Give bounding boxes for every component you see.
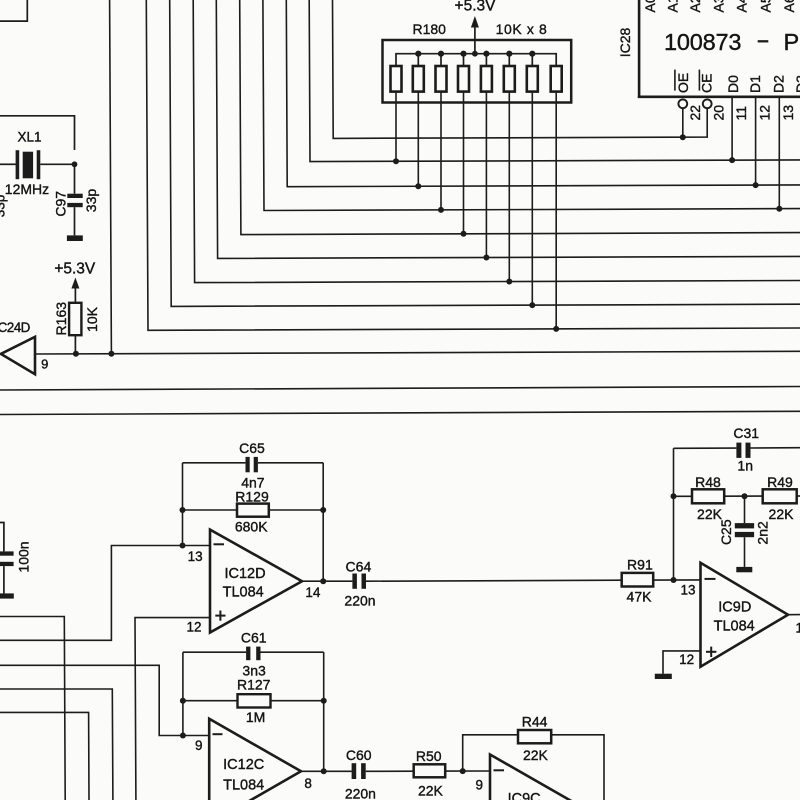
svg-text:100873: 100873 xyxy=(664,29,741,55)
wire rail riser xyxy=(417,54,419,66)
plus sign IC9D xyxy=(706,651,716,653)
node D1 on bus xyxy=(753,182,759,188)
resistor R180 element 1 xyxy=(391,66,402,92)
svg-text:R127: R127 xyxy=(237,676,271,692)
resistor R49 xyxy=(763,489,797,503)
capacitor 100n top plate xyxy=(0,551,14,555)
plus sign IC12D xyxy=(215,615,225,617)
wire left-edge net W5 xyxy=(0,712,89,800)
svg-text:C31: C31 xyxy=(733,425,759,441)
resistor R180 element 5 xyxy=(481,66,492,92)
svg-text:13: 13 xyxy=(780,105,796,121)
wire C97 to rail stub xyxy=(74,207,76,235)
resistor R163 xyxy=(69,303,81,335)
minus sign IC9C xyxy=(494,769,505,771)
wire feedback right vertical IC12C xyxy=(323,652,325,771)
svg-text:IC9D: IC9D xyxy=(718,600,751,616)
wire left-edge net W1 xyxy=(0,617,65,800)
svg-text:11: 11 xyxy=(733,106,749,121)
op-amp IC9C triangle (cut at bottom) xyxy=(490,755,582,800)
node R127 right xyxy=(321,698,327,704)
capacitor C97 top plate xyxy=(67,194,82,198)
node IC12D output xyxy=(320,578,326,584)
wire bus line L8 with left corner xyxy=(170,0,800,306)
wire IC12C output to C60 xyxy=(301,770,352,772)
wire R48 left lead xyxy=(674,495,693,497)
svg-text:TL084: TL084 xyxy=(223,585,264,601)
gate IC24D triangle xyxy=(1,337,35,374)
capacitor C60 left plate xyxy=(352,763,357,779)
wire R48 to R49 xyxy=(724,495,763,497)
svg-text:13: 13 xyxy=(680,582,695,597)
crystal XL1 body xyxy=(23,152,33,179)
wire R180 top rail xyxy=(396,54,556,66)
capacitor C65 left plate xyxy=(246,457,250,472)
svg-text:22K: 22K xyxy=(769,506,795,522)
resistor R50 xyxy=(414,764,446,777)
wire bus line L2 with left corner xyxy=(309,0,800,162)
svg-text:R48: R48 xyxy=(695,474,721,490)
wire R180 element 3 to bus line L4 xyxy=(440,92,442,210)
svg-text:OE: OE xyxy=(675,73,691,93)
supply arrow +5.3V (top) xyxy=(471,16,479,28)
svg-text:A1: A1 xyxy=(665,0,681,13)
capacitor C64 right plate xyxy=(362,574,367,589)
svg-text:C64: C64 xyxy=(346,558,372,574)
svg-text:+5.3V: +5.3V xyxy=(455,0,497,15)
wire bus vertical x=111 xyxy=(110,0,112,354)
capacitor C64 left plate xyxy=(352,574,357,589)
resistor R180 element 7 xyxy=(527,66,538,92)
node R129 left xyxy=(180,507,186,513)
resistor R180 element 3 xyxy=(436,66,447,92)
node R180 element 7 on bus xyxy=(529,302,535,308)
node IC12C inverting input xyxy=(180,733,186,739)
svg-text:D1: D1 xyxy=(747,75,763,93)
node rail junction xyxy=(438,51,444,57)
svg-text:220n: 220n xyxy=(344,593,375,609)
wire IC12D pin 12 input net xyxy=(135,618,210,800)
svg-text:R44: R44 xyxy=(522,714,548,730)
svg-text:R49: R49 xyxy=(767,474,793,490)
rail stub bar below C97 xyxy=(67,235,83,241)
svg-text:10K: 10K xyxy=(84,306,100,332)
wire crystal right lead xyxy=(40,163,74,165)
capacitor C97 bottom plate xyxy=(67,203,82,207)
minus sign IC12D xyxy=(214,543,225,545)
node rail junction xyxy=(415,51,421,57)
IC28 OE inversion bubble xyxy=(678,99,687,108)
svg-text:2n2: 2n2 xyxy=(754,521,770,545)
svg-text:22K: 22K xyxy=(523,747,549,763)
svg-text:R180: R180 xyxy=(412,21,446,37)
wire R129 left lead xyxy=(183,509,238,511)
wire crystal left lead xyxy=(0,163,16,165)
svg-text:A6: A6 xyxy=(781,0,797,13)
wire C61 feedback left segment xyxy=(183,651,246,653)
wire bus line L3 with left corner xyxy=(286,0,800,187)
wire IC9D output to edge xyxy=(788,614,800,616)
svg-text:220n: 220n xyxy=(345,785,376,800)
svg-text:8: 8 xyxy=(304,776,312,791)
node C25 top xyxy=(742,493,748,499)
node R180 element 2 on bus xyxy=(415,183,421,189)
wire crystal node to C97 xyxy=(74,164,76,193)
svg-text:IC28: IC28 xyxy=(617,28,633,58)
svg-text:20: 20 xyxy=(711,105,727,121)
wire bus line L5 with left corner xyxy=(240,0,800,235)
node crystal/C97 junction xyxy=(72,161,78,167)
capacitor C25 top plate xyxy=(735,523,754,528)
resistor R180 element 6 xyxy=(504,66,515,92)
wire C25 bottom lead xyxy=(744,537,746,567)
svg-text:XL1: XL1 xyxy=(17,130,41,145)
node rail junction xyxy=(529,51,535,57)
svg-text:12: 12 xyxy=(757,105,773,121)
svg-text:9: 9 xyxy=(475,778,483,793)
wire feedback left vertical IC12C xyxy=(182,652,184,735)
capacitor C60 right plate xyxy=(361,763,366,779)
resistor R127 xyxy=(238,694,271,707)
node IC9D inverting input xyxy=(671,577,677,583)
wire R180 element 7 to bus line L8 xyxy=(531,92,533,306)
svg-text:1n: 1n xyxy=(737,458,753,474)
wire to capacitor 100n xyxy=(0,523,4,552)
node rail junction xyxy=(483,51,489,57)
wire R50 to IC9C pin 9 xyxy=(445,770,490,772)
wire rail riser xyxy=(485,54,487,66)
wire R163 bottom to IC24D output net xyxy=(74,335,76,354)
supply arrow +5.3V (left) xyxy=(71,278,79,289)
wire R127 right lead xyxy=(271,700,324,702)
overbar of OE xyxy=(674,70,676,91)
node R180 element 4 on bus xyxy=(461,231,467,237)
node rail junction xyxy=(506,51,512,57)
svg-text:A0: A0 xyxy=(642,0,658,13)
wire rail riser xyxy=(440,54,442,66)
node R163 junction xyxy=(73,351,79,357)
wire R44 left branch xyxy=(463,735,518,771)
svg-text:A5: A5 xyxy=(758,0,774,13)
wire full-width bus line L12 xyxy=(0,411,800,414)
svg-text:A4: A4 xyxy=(734,0,750,13)
wire R180 element 2 to bus line L3 xyxy=(417,92,419,187)
node R180 element 3 on bus xyxy=(438,207,444,213)
capacitor C31 right plate xyxy=(746,443,751,458)
node OE/CE junction on L1 xyxy=(680,134,686,140)
wire R127 left lead xyxy=(183,700,238,702)
minus sign IC9D xyxy=(705,578,716,580)
resistor R48 xyxy=(692,489,724,503)
resistor R44 xyxy=(518,730,551,743)
wire C60 to R50 xyxy=(366,770,414,772)
wire OE pin to L1 xyxy=(682,108,684,137)
capacitor C25 bottom plate xyxy=(735,532,754,537)
crystal XL1 right plate xyxy=(37,150,41,179)
wire 100n to stub bar xyxy=(3,566,5,593)
svg-text:10K x 8: 10K x 8 xyxy=(496,21,548,37)
wire R180 element 4 to bus line L5 xyxy=(463,92,465,234)
resistor R180 element 2 xyxy=(413,66,424,92)
node IC12D inverting input xyxy=(180,543,186,549)
node R48 left xyxy=(671,493,677,499)
node R180 element 8 on bus xyxy=(553,326,559,332)
svg-text:C61: C61 xyxy=(241,629,267,645)
svg-text:A3: A3 xyxy=(711,0,727,13)
wire IC12D pin 13 input net xyxy=(0,546,210,641)
node R180 element 1 on bus xyxy=(393,158,399,164)
svg-text:14: 14 xyxy=(796,621,800,636)
wire rail riser xyxy=(508,54,510,66)
svg-text:R163: R163 xyxy=(53,302,69,336)
svg-text:33p: 33p xyxy=(0,195,8,218)
wire R180 element 8 to bus line L9 xyxy=(555,92,557,329)
node R180 element 5 on bus xyxy=(483,255,489,261)
capacitor C65 right plate xyxy=(254,457,258,472)
rail stub bar below 100n xyxy=(0,593,14,598)
wire R129 right lead xyxy=(269,509,323,511)
ground stub bar IC9D xyxy=(655,674,672,679)
capacitor C61 right plate xyxy=(256,647,260,661)
svg-text:P: P xyxy=(784,29,800,55)
wire IC12C pin 9 input net xyxy=(0,665,209,735)
svg-text:TL084: TL084 xyxy=(714,619,755,635)
wire IC24D output net (bus line 10) xyxy=(35,351,800,354)
wire bus line L9 with left corner xyxy=(146,0,800,330)
svg-text:CE: CE xyxy=(699,74,715,93)
node bus vertical junction xyxy=(108,351,114,357)
svg-text:C97: C97 xyxy=(52,191,68,217)
node R180 element 6 on bus xyxy=(506,279,512,285)
capacitor C31 left plate xyxy=(736,443,741,458)
svg-text:12MHz: 12MHz xyxy=(5,181,49,197)
wire feedback left vertical IC9D xyxy=(673,448,675,580)
wire R180 element 6 to bus line L7 xyxy=(508,92,510,282)
wire feedback right vertical IC12D xyxy=(322,463,324,581)
wire R180 element 5 to bus line L6 xyxy=(485,92,487,258)
resistor R180 element 8 xyxy=(551,66,562,92)
resistor network R180 box xyxy=(383,40,572,103)
svg-text:13: 13 xyxy=(188,549,203,564)
wire R180 element 1 to bus line L2 xyxy=(395,92,397,162)
wire bus line L7 with left corner xyxy=(193,0,800,283)
wire R91 to IC9D pin 13 xyxy=(653,579,700,581)
wire IC28 pin D2 to bus xyxy=(778,98,780,209)
node R127 left xyxy=(180,698,186,704)
resistor R129 xyxy=(237,504,269,517)
wire IC28 pin D0 to bus xyxy=(731,98,733,160)
svg-text:22: 22 xyxy=(687,105,703,121)
wire C31 left segment xyxy=(674,447,737,449)
wire bus line L1 (OE/CE net) with corner and CE riser xyxy=(333,0,708,138)
svg-text:9: 9 xyxy=(41,357,48,372)
wire bus line L4 with left corner xyxy=(263,0,800,211)
wire C25 top lead xyxy=(744,496,746,523)
resistor R180 element 4 xyxy=(458,66,469,92)
wire R44 right branch down xyxy=(551,735,604,800)
svg-text:9: 9 xyxy=(195,738,203,753)
svg-text:C60: C60 xyxy=(346,747,372,763)
IC28 left edge xyxy=(638,0,641,98)
svg-text:22K: 22K xyxy=(418,783,444,799)
IC28 CE inversion bubble xyxy=(703,99,712,108)
node D2 on bus xyxy=(776,206,782,212)
node R44 branch xyxy=(460,768,466,774)
svg-text:R91: R91 xyxy=(627,556,653,572)
wire feedback left vertical IC12D xyxy=(182,463,184,546)
wire to crystal XL1 top node xyxy=(0,116,75,150)
capacitor C61 left plate xyxy=(246,647,250,661)
svg-text:D0: D0 xyxy=(725,75,741,93)
svg-text:TL084: TL084 xyxy=(223,777,264,793)
svg-text:12: 12 xyxy=(679,652,694,667)
wire C65 feedback right segment xyxy=(258,462,323,464)
op-amp IC12C triangle xyxy=(209,719,301,800)
wire full-width bus line L11 xyxy=(0,387,800,391)
node rail junction xyxy=(460,51,466,57)
wire R49 to edge xyxy=(797,495,800,497)
node supply/rail junction xyxy=(472,51,478,57)
op-amp IC9D triangle xyxy=(701,563,789,667)
svg-text:IC9C: IC9C xyxy=(508,791,541,800)
svg-text:14: 14 xyxy=(305,585,321,600)
wire top-left corner stub xyxy=(0,0,27,21)
svg-text:R129: R129 xyxy=(235,489,269,505)
crystal XL1 left plate xyxy=(16,150,20,179)
node IC12C output xyxy=(321,768,327,774)
svg-text:R50: R50 xyxy=(416,748,442,764)
node R129 right xyxy=(320,507,326,513)
svg-text:47K: 47K xyxy=(627,588,653,604)
minus sign IC12C xyxy=(213,733,223,735)
IC28 part number dash xyxy=(758,40,769,42)
svg-text:A2: A2 xyxy=(687,0,703,13)
op-amp IC12D triangle xyxy=(210,530,302,633)
svg-text:+5.3V: +5.3V xyxy=(54,261,96,278)
wire left-edge net W4 xyxy=(0,689,113,800)
svg-text:680K: 680K xyxy=(235,518,268,534)
svg-text:100n: 100n xyxy=(16,541,32,572)
node D0 on bus xyxy=(729,157,735,163)
svg-text:1M: 1M xyxy=(246,709,265,725)
svg-text:C25: C25 xyxy=(718,519,734,545)
overbar of CE xyxy=(698,70,700,91)
wire bus line L6 with left corner xyxy=(216,0,800,258)
svg-text:IC12C: IC12C xyxy=(223,757,264,773)
wire C31 right segment to edge xyxy=(751,447,800,449)
wire IC12D output to C64 xyxy=(302,580,352,582)
wire IC28 pin D1 to bus xyxy=(755,98,757,185)
resistor R91 xyxy=(622,573,654,587)
wire C65 feedback left segment xyxy=(183,462,246,464)
svg-text:IC12D: IC12D xyxy=(224,566,265,582)
wire C64 to R91 xyxy=(366,580,622,581)
wire IC9D pin 12 to ground stub xyxy=(663,651,701,674)
svg-text:12: 12 xyxy=(186,620,201,635)
svg-text:33p: 33p xyxy=(83,189,99,213)
rail stub bar below C25 xyxy=(736,567,752,572)
svg-text:C65: C65 xyxy=(239,440,265,456)
wire rail riser xyxy=(463,54,465,66)
svg-text:D3: D3 xyxy=(793,75,800,93)
svg-text:IC24D: IC24D xyxy=(0,320,31,335)
wire C61 feedback right segment xyxy=(261,651,324,653)
wire rail riser xyxy=(531,54,533,66)
capacitor 100n bottom plate xyxy=(0,562,14,566)
IC28 bottom edge xyxy=(638,96,800,99)
svg-text:D2: D2 xyxy=(770,75,786,93)
